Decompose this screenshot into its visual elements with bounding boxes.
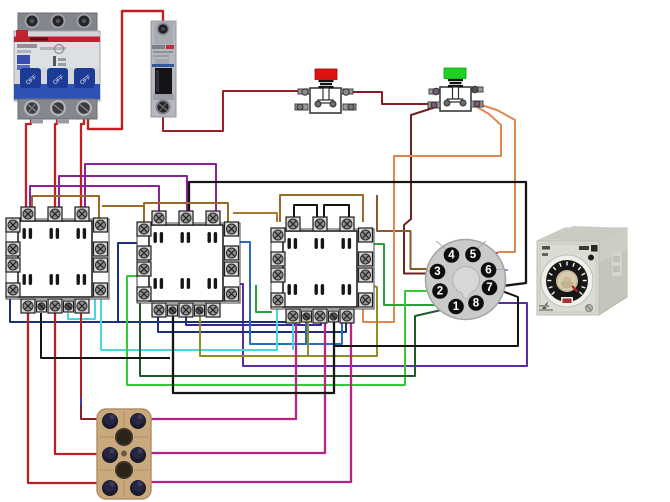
pin 4	[444, 247, 460, 263]
wire KM2 bottom to KM3 bottom (indigo)	[186, 314, 321, 325]
wire SB1 right to SB2 lower-left (dark red)	[348, 92, 432, 104]
relay socket (8-pin octal)	[426, 240, 506, 320]
timer relay KT1	[537, 226, 627, 315]
wire jumper KM3 top2-top3 (black)	[324, 205, 349, 218]
wire SB2 to pin3 of socket (dark maroon)	[404, 107, 436, 274]
svg-text:8: 8	[473, 298, 480, 310]
svg-text:4: 4	[448, 250, 455, 262]
wire KM3 bottom1 to cyan bus (cyan)	[292, 318, 294, 350]
wire KM1 bottom1 to block left3 (red)	[28, 313, 104, 483]
wire brown KM2 corner to KM3 left t1 (light brown)	[233, 213, 277, 222]
svg-text:1: 1	[453, 301, 460, 313]
contactor KM2	[137, 211, 240, 317]
push button SB2 (green start)	[428, 68, 483, 111]
wire KM1 coil black to KM2 (black)	[41, 313, 170, 358]
wire brown frame KM2 top (brown)	[144, 203, 228, 226]
wire KM2 right t2 to KM3 bottom (blue)	[235, 242, 342, 344]
wire KM2 bottom1 to KM3 bottom3 (navy)	[158, 314, 346, 332]
wire pin7 up to line bus (black)	[189, 182, 526, 287]
wire KM2 bottom small2 to KM3 right t2 (olive)	[200, 260, 377, 356]
wire KM3 bottom3 to block right3 (magenta)	[144, 318, 351, 482]
pin 8	[468, 295, 484, 311]
wire brown frame KM1 top (brown)	[32, 196, 99, 226]
wire brown KM1 to KM2 left t1 (brown)	[102, 205, 144, 207]
wire L3 QF1 to KM1 top3 (red)	[81, 112, 84, 210]
wire KM3 top frame to pin3 (brown)	[377, 195, 432, 269]
wire L1 QF1 to KM1 top1 (red)	[26, 112, 31, 210]
wire jumper KM1-KM2 tops 1 (purple)	[30, 186, 159, 215]
wire blue stub KM3 bottom	[305, 318, 307, 344]
wire KM3 bottom1 to block right1 (magenta)	[144, 318, 296, 419]
wire pin8 to KM2 right col t3 (violet)	[233, 273, 527, 366]
wire KM1 bottom3 to block left1 (red)	[80, 313, 82, 399]
wire KM1 bottom2 to block left2 (red)	[55, 313, 104, 454]
wire QF1 to QF2 top (red)	[88, 11, 163, 129]
wire SB2 to pin5 of socket (orange)	[478, 104, 515, 252]
pin 1	[448, 299, 464, 315]
wire jumper KM3 top1-top2 (black)	[294, 205, 317, 218]
wire KM1 right col t4 to KM3 left col bottom (cyan)	[101, 297, 277, 350]
wire QF2 bottom to SB1 left (dark red)	[163, 91, 303, 131]
wire SB2 to KM3 right col t3 (orange)	[363, 107, 501, 322]
contactor KM3	[271, 217, 374, 323]
circuit breaker QF2 (1-pole)	[151, 21, 176, 117]
push button SB1 (red stop)	[295, 69, 356, 113]
wire pin6 stub (periwinkle)	[494, 269, 508, 271]
svg-text:3: 3	[434, 266, 440, 278]
wire pin5 stub (crimson)	[479, 252, 498, 254]
svg-text:2: 2	[437, 286, 443, 298]
pin 2	[432, 283, 448, 299]
terminal block (motor)	[97, 409, 151, 499]
pin 6	[481, 262, 497, 278]
wire KM1 bottom small2 loop (cyan)	[68, 297, 95, 319]
wire brown frame KM3 top (brown)	[280, 195, 363, 222]
wire KM3 left col stub (green)	[256, 285, 272, 312]
svg-text:7: 7	[486, 282, 492, 294]
wire KM3 bottom small1 olive branch	[307, 318, 309, 356]
wire KM1 left col t4 to KM3 bottom1 (navy)	[10, 293, 294, 322]
wire KM3 bottom2 to block right2 (magenta)	[144, 318, 325, 453]
wire KM3 right t2 to pin1 (green)	[366, 244, 450, 305]
wire L2 QF1 to KM1 top2 (red)	[55, 112, 57, 210]
pin 3	[430, 264, 446, 280]
wire violet segment into block left1	[80, 398, 82, 406]
wire dark red into block left1	[81, 405, 101, 419]
wire jumper KM1-KM2 tops 3 (purple)	[85, 164, 216, 215]
wire jumper KM1 right t2 to KM2 left t2 (navy)	[118, 243, 143, 322]
wire KM3 to pin7 (black)	[334, 288, 518, 346]
pin 5	[465, 247, 481, 263]
wire KM2 left t3 to pin2 (bright green)	[127, 276, 434, 385]
pin 7	[482, 280, 498, 296]
circuit breaker QF1 (3-pole, DZ47-63)	[14, 13, 100, 124]
contactor KM1	[6, 207, 109, 313]
wire KM2 coil to KM3 coil (black)	[173, 314, 334, 393]
wire jumper KM1-KM2 tops 2 (purple)	[59, 176, 187, 215]
svg-text:6: 6	[485, 265, 491, 277]
svg-text:5: 5	[470, 249, 477, 261]
wire KM2 left t4 to pin1 (dark green)	[140, 300, 450, 376]
